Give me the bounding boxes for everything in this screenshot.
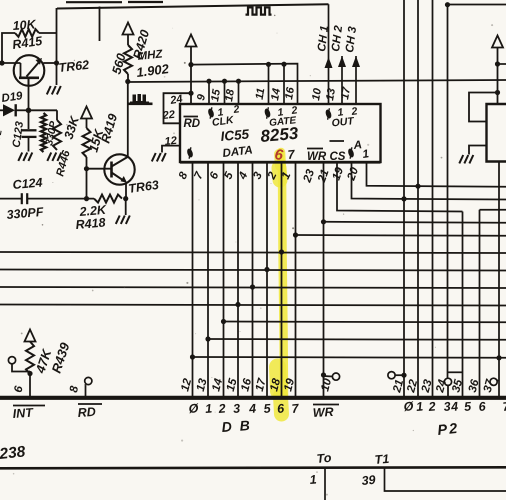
svg-text:12: 12 bbox=[164, 135, 177, 148]
power triangle R420 bbox=[123, 23, 134, 35]
bus fan line 0 at y=235.0 bbox=[296, 234, 506, 237]
node base TR62 bbox=[0, 60, 5, 65]
pin 12 stub bbox=[162, 146, 180, 153]
WR horizontal bbox=[324, 222, 506, 223]
A1 net (pin20) bbox=[367, 163, 506, 187]
svg-text:1: 1 bbox=[416, 399, 424, 414]
data line D6 (pin 7) bbox=[207, 163, 209, 397]
svg-text:R446: R446 bbox=[54, 148, 73, 177]
resistor R439 47K bbox=[26, 342, 34, 375]
svg-text:10: 10 bbox=[310, 87, 324, 102]
wire top rail to CH1 bbox=[57, 4, 329, 8]
ground TR63 bbox=[116, 216, 130, 224]
yellow highlighter stripe over data line D6 / bus bit 6 bbox=[278, 152, 285, 414]
svg-text:CLK: CLK bbox=[211, 114, 235, 129]
wire TR63 collector bbox=[127, 82, 129, 158]
data line D0 (pin 1) bbox=[295, 163, 297, 397]
svg-text:CH 2: CH 2 bbox=[330, 24, 345, 52]
svg-text:13: 13 bbox=[324, 87, 338, 101]
resistor 33K bbox=[53, 120, 61, 150]
transistor TR62 bbox=[14, 55, 45, 86]
svg-text:22: 22 bbox=[161, 109, 175, 122]
wire Vcc right bbox=[497, 48, 499, 105]
node R420/rail bbox=[125, 79, 130, 84]
node R419/C124 bbox=[84, 196, 89, 201]
svg-text:10: 10 bbox=[319, 377, 334, 393]
capacitor C124 bbox=[21, 193, 23, 204]
wire base TR63 bbox=[87, 168, 112, 170]
data line D3 (pin 4) bbox=[252, 163, 254, 397]
svg-text:TR63: TR63 bbox=[127, 178, 159, 196]
bus fan line 2 at y=269.5 bbox=[0, 270, 506, 271]
DATA slash0 bbox=[186, 147, 194, 158]
svg-text:39: 39 bbox=[361, 473, 376, 488]
pin 18 stub bbox=[236, 79, 241, 84]
CLK group bbox=[207, 107, 215, 118]
svg-text:DATA: DATA bbox=[222, 144, 253, 160]
wire stub from top rail bbox=[99, 7, 101, 42]
svg-text:CH 3: CH 3 bbox=[344, 25, 359, 53]
bus fan line 5 at y=321.5 bbox=[224, 321, 506, 324]
second bus line bbox=[0, 467, 506, 468]
ground pin 12 bbox=[152, 153, 166, 161]
svg-text:D19: D19 bbox=[1, 90, 24, 105]
top border dashes bbox=[66, 1, 122, 3]
resistor R415 10K bbox=[15, 29, 39, 37]
svg-text:8: 8 bbox=[177, 170, 191, 181]
svg-text:24: 24 bbox=[434, 378, 449, 395]
svg-text:INT: INT bbox=[12, 406, 34, 421]
data line D7 (pin 8) bbox=[192, 163, 194, 397]
CS net vertical to bus stub 35 bbox=[462, 212, 464, 397]
node Vcc right/out bbox=[495, 61, 500, 66]
pin 11 stub bbox=[268, 64, 270, 104]
resistor R418 2.2K bbox=[94, 195, 122, 203]
ground 33K bbox=[47, 153, 61, 161]
stub 36 horizontal segment bbox=[479, 210, 481, 396]
pin24 jog to 35 bbox=[448, 371, 463, 373]
capacitor C123 bbox=[28, 110, 30, 129]
A0 net (pin19) bbox=[352, 163, 506, 200]
wire GATE rail bbox=[191, 64, 298, 104]
RD stub bbox=[85, 377, 92, 384]
svg-text:3: 3 bbox=[233, 401, 241, 416]
svg-text:To: To bbox=[316, 451, 332, 466]
svg-text:19: 19 bbox=[331, 165, 347, 182]
svg-text:10K: 10K bbox=[12, 17, 37, 33]
node gate stub 11 bbox=[266, 62, 271, 67]
svg-text:7: 7 bbox=[192, 170, 206, 181]
svg-text:7: 7 bbox=[287, 147, 296, 162]
svg-text:2: 2 bbox=[217, 401, 226, 416]
svg-text:1: 1 bbox=[309, 472, 317, 487]
svg-text:4: 4 bbox=[450, 399, 459, 414]
svg-text:6: 6 bbox=[13, 385, 26, 394]
power triangle R419 bbox=[81, 107, 92, 119]
svg-text:R439: R439 bbox=[49, 340, 73, 375]
svg-text:T1: T1 bbox=[374, 452, 390, 467]
ground right IC bbox=[459, 155, 473, 163]
GATE group bbox=[263, 107, 271, 118]
svg-text:C124: C124 bbox=[12, 175, 43, 192]
data line D2 (pin 3) bbox=[266, 163, 268, 397]
bus fan line 7 at y=357.0 bbox=[193, 356, 506, 359]
pin 15 stub bbox=[222, 79, 227, 84]
svg-text:15: 15 bbox=[209, 88, 223, 103]
wire R415 right / collector vertical bbox=[39, 32, 57, 34]
INT aux circle bbox=[8, 357, 15, 364]
svg-text:7: 7 bbox=[291, 401, 300, 416]
svg-text:R415: R415 bbox=[11, 34, 44, 52]
svg-text:Ø: Ø bbox=[188, 401, 200, 416]
svg-text:8: 8 bbox=[68, 385, 81, 394]
WR net vertical bbox=[323, 163, 325, 397]
svg-text:R418: R418 bbox=[75, 215, 106, 232]
INT stub bbox=[29, 374, 31, 397]
wire R415 left to base node bbox=[2, 33, 15, 63]
vertical net x=432.5 bbox=[432, 0, 434, 396]
svg-text:23: 23 bbox=[301, 167, 317, 185]
A group bbox=[347, 147, 355, 158]
svg-text:RD: RD bbox=[77, 405, 96, 420]
node A1/vert418 bbox=[415, 184, 420, 189]
node A0/vert404 bbox=[401, 196, 406, 201]
svg-text:Ø: Ø bbox=[403, 399, 415, 414]
svg-text:5: 5 bbox=[222, 170, 236, 181]
wire C124 to node bbox=[28, 198, 94, 200]
svg-text:14: 14 bbox=[269, 87, 283, 101]
svg-text:R419: R419 bbox=[98, 112, 120, 145]
power triangle right IC bbox=[492, 36, 503, 48]
op IC55 8253 box bbox=[180, 104, 381, 162]
svg-text:1: 1 bbox=[205, 401, 213, 416]
diode D19 bbox=[0, 109, 3, 111]
svg-text:WR: WR bbox=[307, 151, 327, 163]
right IC ground stub bbox=[469, 146, 487, 155]
bracket pin24 to pin22 bbox=[164, 93, 192, 123]
svg-text:11: 11 bbox=[254, 87, 268, 100]
CH3 line bbox=[355, 56, 357, 104]
pin 14 stub bbox=[283, 64, 285, 104]
svg-text:C123: C123 bbox=[11, 121, 27, 149]
OUT group bbox=[324, 108, 332, 119]
bus fan line 1 at y=252.0 bbox=[0, 252, 506, 253]
svg-text:4: 4 bbox=[248, 401, 257, 416]
scribble 330P capacitor bbox=[41, 113, 46, 152]
vertical net x=404 bbox=[403, 0, 405, 396]
svg-text:WR: WR bbox=[312, 405, 334, 420]
svg-text:5: 5 bbox=[263, 401, 272, 416]
CH1 line bbox=[328, 4, 330, 104]
pulse symbol solid bbox=[130, 94, 149, 105]
wire Vcc vertical pin24 bbox=[190, 47, 192, 105]
pulse waveform symbol (square wave) at top bbox=[246, 7, 272, 14]
node Vcc right/bracket bbox=[495, 90, 500, 95]
wire To column bbox=[324, 468, 326, 500]
bus fan line 4 at y=304.5 bbox=[0, 305, 506, 306]
ground C123 bbox=[18, 153, 32, 161]
stub 37 circle bbox=[490, 378, 497, 385]
svg-text:8253: 8253 bbox=[260, 124, 300, 146]
node WR bus stub bbox=[321, 372, 326, 377]
svg-text:7: 7 bbox=[502, 399, 506, 414]
vertical net x=447.5 (pin24 net) bbox=[447, 5, 449, 379]
transistor TR63 bbox=[104, 154, 134, 184]
node emitter/R418 bbox=[123, 196, 128, 201]
wire collector to ground bbox=[56, 63, 58, 85]
data line D5 (pin 6) bbox=[223, 163, 225, 397]
node base TR63 bbox=[84, 166, 89, 171]
wire T1 bracket bbox=[385, 468, 506, 491]
svg-text:33K: 33K bbox=[62, 114, 83, 141]
svg-text:P2: P2 bbox=[437, 421, 460, 439]
CH2 line bbox=[341, 56, 343, 104]
bus fan line 3 at y=287.0 bbox=[0, 287, 506, 288]
power triangle R439 bbox=[25, 330, 36, 342]
svg-text:9: 9 bbox=[195, 93, 208, 102]
node at top right vertical bbox=[445, 2, 450, 7]
data line D4 (pin 5) bbox=[237, 163, 239, 397]
op-amp/IC right box bbox=[487, 104, 506, 162]
wire left to C124 bbox=[0, 198, 21, 200]
bus fan line 6 at y=339.0 bbox=[208, 338, 506, 341]
svg-text:330PF: 330PF bbox=[6, 205, 44, 222]
stub 24 circle bbox=[444, 378, 451, 385]
CS net (pin21) bbox=[337, 163, 463, 212]
svg-text:1: 1 bbox=[362, 148, 370, 161]
right IC pin down bbox=[498, 162, 500, 397]
svg-text:20: 20 bbox=[345, 165, 361, 183]
node D19/C123 bbox=[26, 108, 32, 114]
svg-text:6: 6 bbox=[208, 170, 222, 181]
node WR tee bbox=[321, 219, 326, 224]
svg-text:238: 238 bbox=[0, 443, 27, 463]
wire 1.902MHz rail bbox=[128, 80, 506, 82]
svg-text:2: 2 bbox=[427, 399, 436, 414]
svg-text:17: 17 bbox=[339, 86, 353, 101]
node fan/37 bbox=[496, 355, 501, 360]
resistor R419 15K bbox=[86, 119, 88, 129]
bus DB/P2 main line bbox=[0, 396, 506, 400]
svg-text:16: 16 bbox=[283, 86, 297, 101]
svg-text:RD: RD bbox=[184, 118, 201, 130]
svg-text:6: 6 bbox=[478, 399, 487, 414]
svg-text:D B: D B bbox=[221, 417, 252, 435]
wire TR62 emitter to node bbox=[28, 86, 30, 110]
node Vcc/pin24 bracket bbox=[188, 91, 193, 96]
bracket right IC bbox=[469, 93, 498, 122]
svg-text:3: 3 bbox=[251, 170, 265, 181]
svg-text:CS: CS bbox=[330, 151, 346, 163]
svg-text:MHZ: MHZ bbox=[137, 48, 164, 63]
wire right top segment bbox=[448, 4, 506, 6]
node gate stub 14 bbox=[281, 62, 286, 67]
WR terminal circle bbox=[324, 375, 333, 378]
wire node to 33K bbox=[29, 109, 58, 111]
svg-text:18: 18 bbox=[223, 88, 237, 103]
stub 21 circle bbox=[388, 372, 395, 379]
svg-text:5: 5 bbox=[464, 399, 473, 414]
wire 15K to C124 node bbox=[86, 169, 88, 199]
node Vcc/GATE rail bbox=[188, 62, 193, 67]
node collector TR62 bbox=[54, 60, 59, 65]
vertical net x=418 bbox=[417, 0, 419, 396]
svg-text:IC55: IC55 bbox=[220, 127, 250, 144]
wire emitter ground bbox=[125, 199, 127, 215]
resistor R420 560 bbox=[127, 35, 129, 46]
node R439 bottom bbox=[27, 371, 32, 376]
data line D1 (pin 2) bbox=[281, 163, 283, 397]
pin 9 stub bbox=[206, 79, 211, 84]
power triangle pin24 bbox=[186, 35, 197, 47]
ground TR62 bbox=[47, 86, 61, 94]
svg-text:OUT: OUT bbox=[331, 115, 356, 129]
svg-text:37: 37 bbox=[482, 378, 497, 394]
svg-text:≠2: ≠2 bbox=[0, 129, 4, 141]
